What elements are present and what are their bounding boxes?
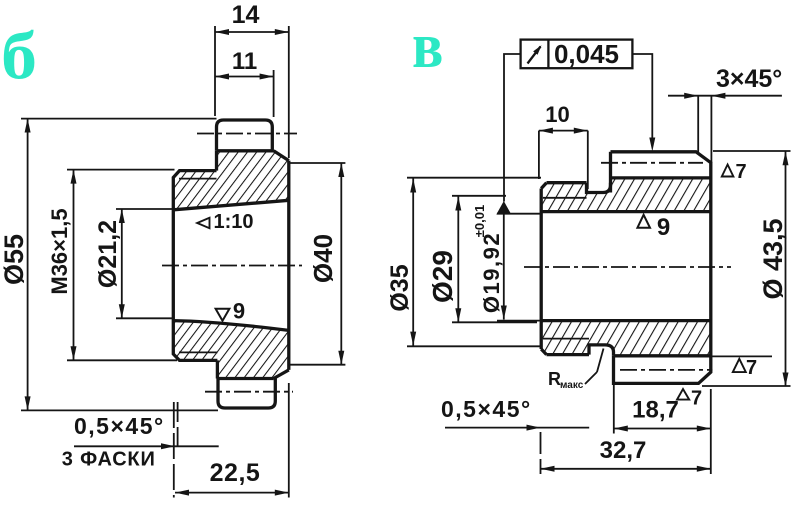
svg-text:11: 11 xyxy=(232,48,257,75)
svg-text:б: б xyxy=(1,19,37,94)
svg-text:М36×1,5: М36×1,5 xyxy=(47,208,72,294)
svg-text:1:10: 1:10 xyxy=(213,211,253,233)
svg-text:7: 7 xyxy=(735,161,746,183)
svg-text:7: 7 xyxy=(691,388,702,410)
svg-text:0,045: 0,045 xyxy=(554,39,619,69)
svg-text:3 ФАСКИ: 3 ФАСКИ xyxy=(62,449,156,471)
svg-text:Ø55: Ø55 xyxy=(0,234,29,285)
svg-text:Ø 43,5: Ø 43,5 xyxy=(758,218,788,299)
svg-text:32,7: 32,7 xyxy=(600,437,647,464)
svg-text:макс: макс xyxy=(560,380,584,391)
svg-text:9: 9 xyxy=(233,299,245,324)
svg-text:9: 9 xyxy=(657,214,670,241)
svg-text:3×45°: 3×45° xyxy=(716,65,782,93)
svg-text:±0,01: ±0,01 xyxy=(472,205,487,237)
svg-text:22,5: 22,5 xyxy=(210,459,261,487)
svg-text:Ø19,92: Ø19,92 xyxy=(479,232,504,313)
svg-text:в: в xyxy=(412,10,443,82)
svg-text:Ø40: Ø40 xyxy=(308,234,338,283)
svg-text:Ø21,2: Ø21,2 xyxy=(94,220,122,288)
svg-text:7: 7 xyxy=(746,357,757,379)
svg-text:10: 10 xyxy=(545,102,569,127)
svg-text:Ø35: Ø35 xyxy=(386,264,414,311)
svg-text:Ø29: Ø29 xyxy=(427,250,458,303)
svg-text:18,7: 18,7 xyxy=(632,397,679,424)
svg-text:14: 14 xyxy=(232,1,260,29)
svg-text:0,5×45°: 0,5×45° xyxy=(74,413,165,439)
svg-text:0,5×45°: 0,5×45° xyxy=(441,396,532,422)
